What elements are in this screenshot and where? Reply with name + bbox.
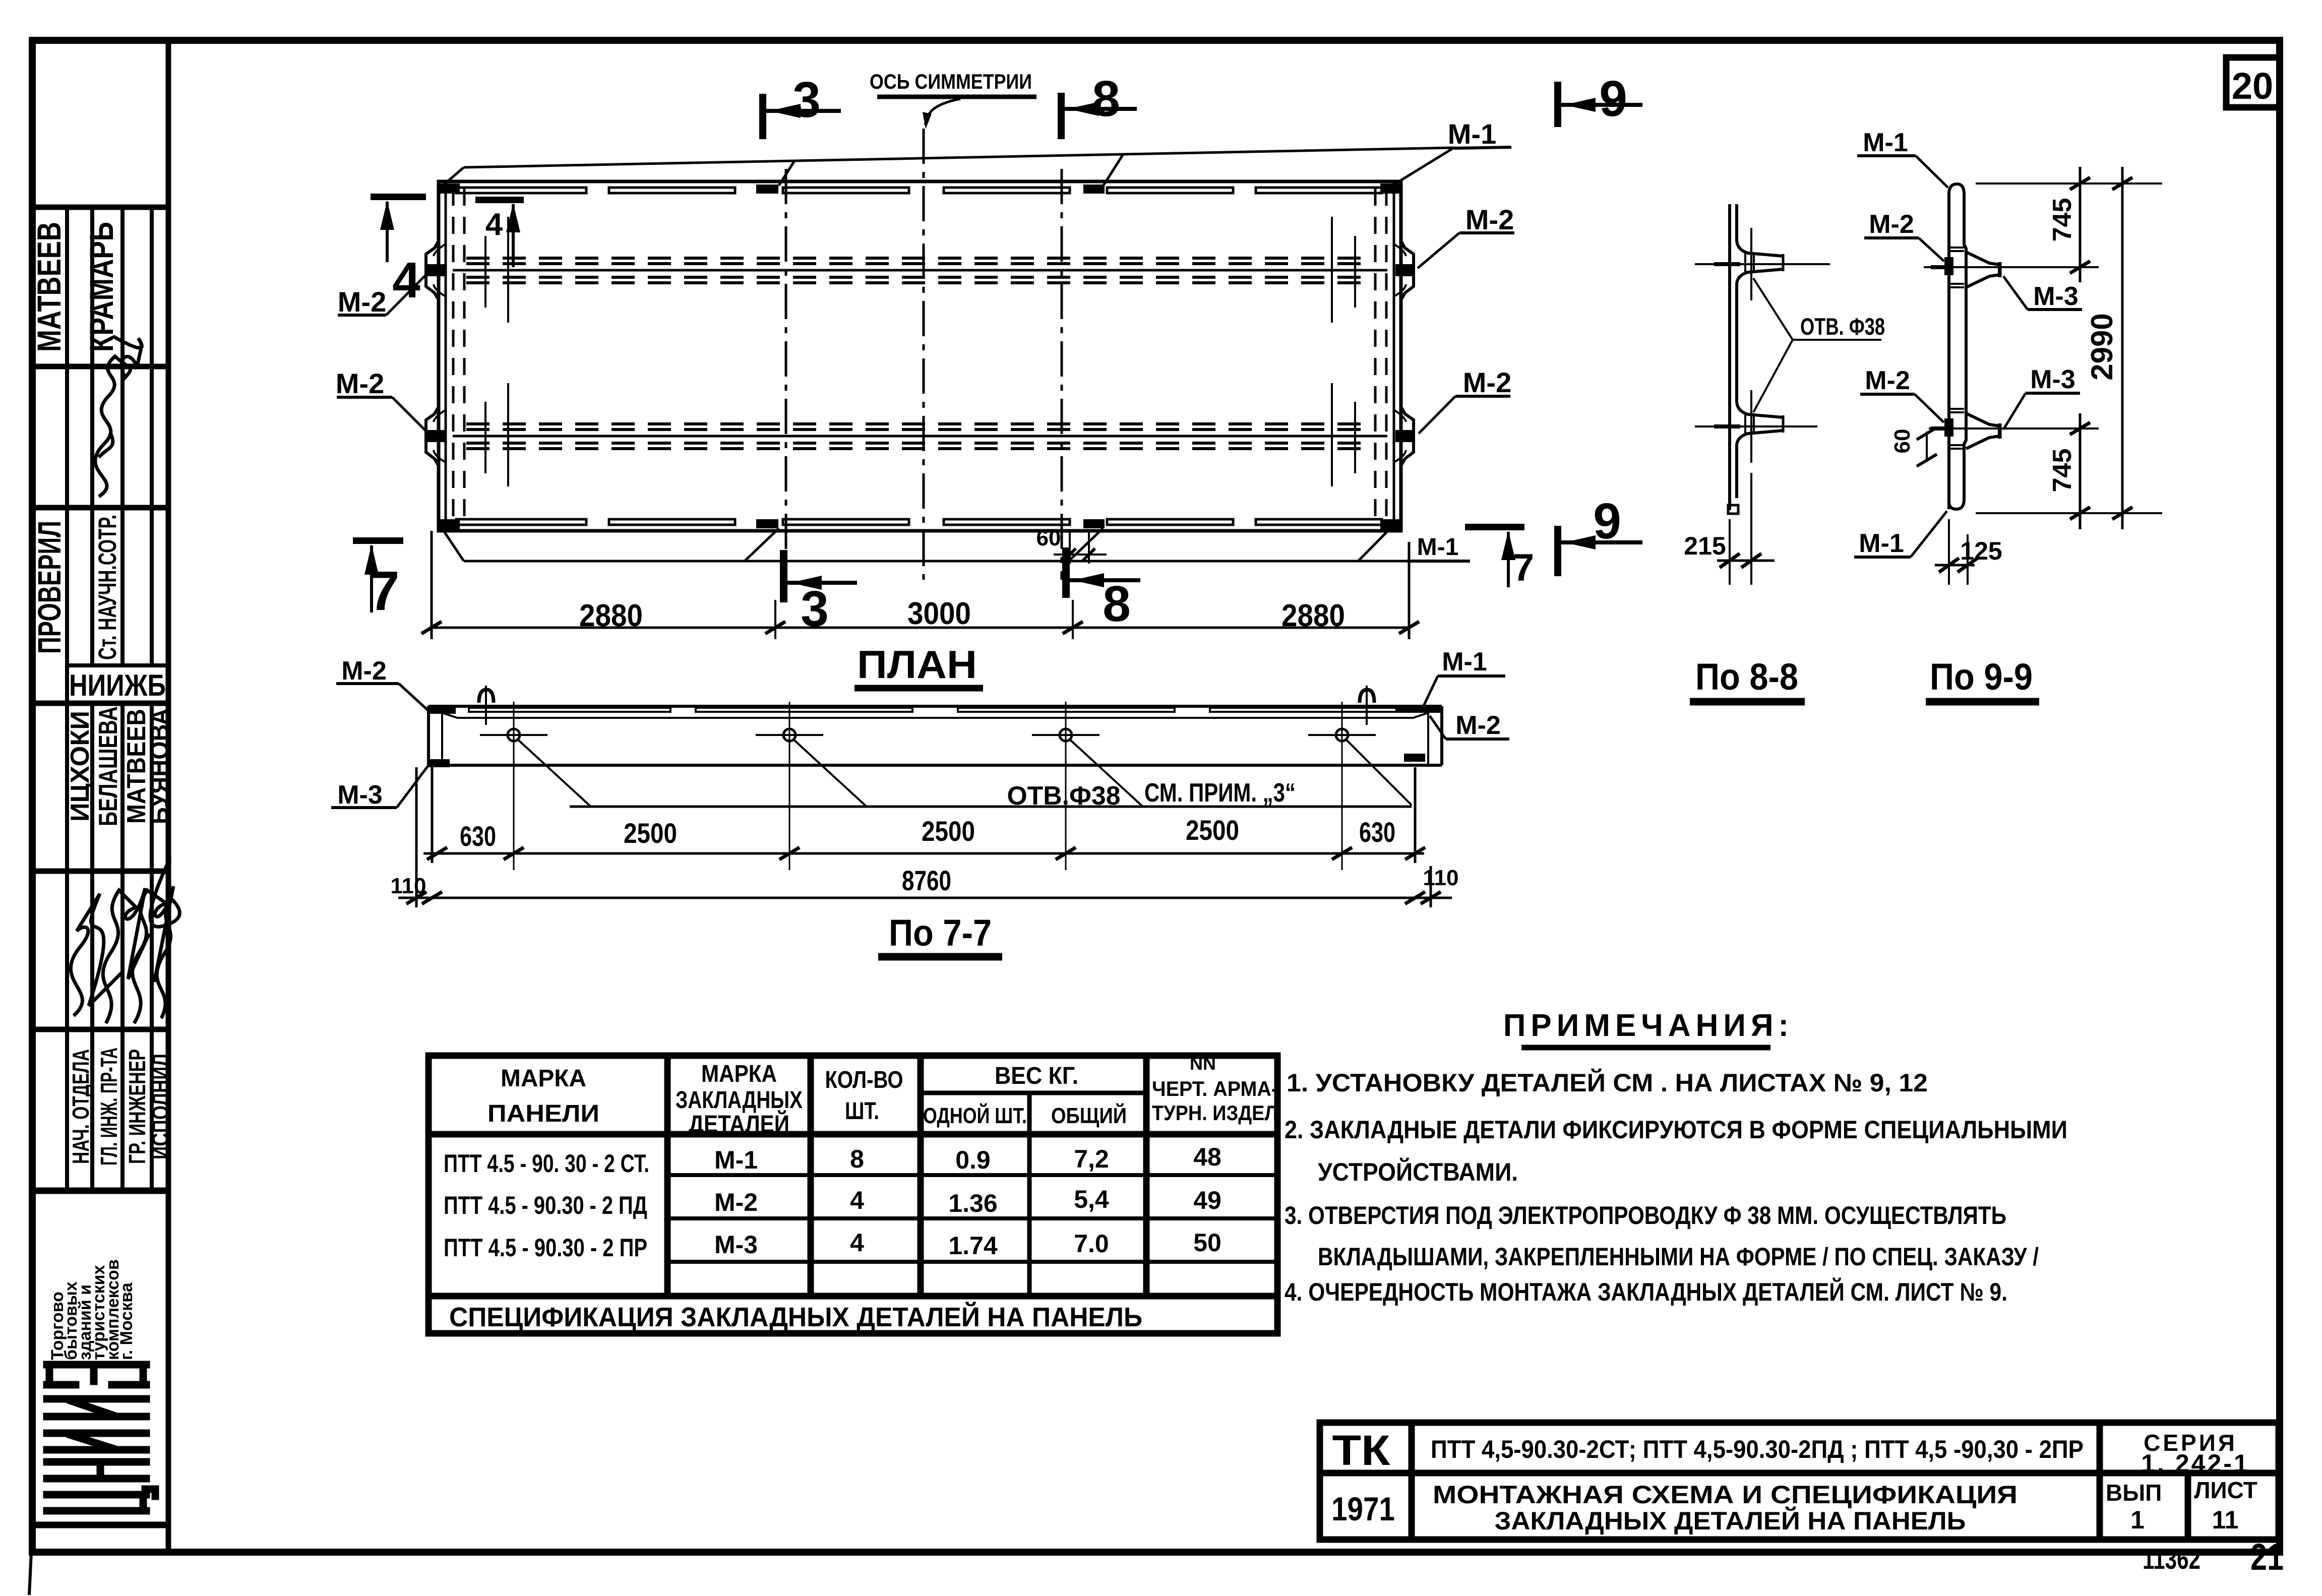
signature Крамарь — [95, 336, 142, 497]
По 7-7 title — [878, 912, 1002, 957]
svg-text:М-2: М-2 — [714, 1188, 758, 1216]
М-3 label По77 left — [331, 765, 429, 810]
svg-text:ПТТ 4.5 - 90.30 - 2 ПР: ПТТ 4.5 - 90.30 - 2 ПР — [444, 1234, 647, 1262]
svg-text:ПЛАН: ПЛАН — [857, 642, 977, 687]
svg-text:11: 11 — [2212, 1506, 2239, 1534]
svg-text:4: 4 — [392, 252, 420, 309]
М-1 label По99 top — [1857, 128, 1948, 188]
axis dash-dot lines — [786, 129, 1062, 580]
svg-text:ШТ.: ШТ. — [845, 1098, 879, 1125]
svg-text:7,2: 7,2 — [1074, 1145, 1109, 1173]
ОТВ Ф38 leader По88 — [1753, 278, 1881, 412]
М-2 blobs at rib ends — [427, 264, 1413, 442]
По 9-9 flare axes — [1924, 267, 2099, 428]
svg-text:М-1: М-1 — [1417, 534, 1459, 561]
rib 1 dashed band — [466, 258, 1374, 283]
svg-text:1971: 1971 — [1331, 1490, 1395, 1527]
svg-text:9: 9 — [1599, 71, 1627, 127]
По 8-8 funnel axes — [1695, 228, 1830, 463]
svg-text:ОСЬ СИММЕТРИИ: ОСЬ СИММЕТРИИ — [870, 70, 1032, 93]
М-2 label right lower — [1419, 366, 1511, 434]
svg-text:7: 7 — [1513, 546, 1534, 589]
svg-text:ВЕС КГ.: ВЕС КГ. — [995, 1063, 1078, 1089]
svg-text:М-3: М-3 — [337, 780, 383, 810]
М-3 label По99 lower — [2003, 365, 2080, 429]
svg-text:М-1: М-1 — [714, 1146, 758, 1174]
svg-text:М-1: М-1 — [1442, 647, 1487, 677]
svg-text:ЧЕРТ. АРМА-: ЧЕРТ. АРМА- — [1152, 1077, 1278, 1100]
svg-text:8: 8 — [1103, 576, 1131, 632]
svg-text:3: 3 — [792, 72, 821, 128]
svg-text:48: 48 — [1193, 1143, 1221, 1171]
signatures section E — [71, 858, 179, 1023]
svg-text:УСТРОЙСТВАМИ.: УСТРОЙСТВАМИ. — [1318, 1157, 1518, 1186]
По 7-7 dim texts row1 — [460, 814, 1395, 852]
ПЛАН title — [854, 642, 983, 688]
svg-text:М-2: М-2 — [1865, 366, 1910, 395]
section marker 3 bottom — [780, 550, 857, 637]
svg-text:По 8-8: По 8-8 — [1695, 656, 1798, 698]
stamp rotated names section D — [66, 706, 174, 826]
svg-text:125: 125 — [1960, 537, 2002, 565]
section marker 7 bottom right — [1465, 524, 1534, 589]
svg-text:110: 110 — [391, 874, 426, 898]
section marker 8 top — [1058, 71, 1137, 139]
М-2 label По99 lower — [1860, 366, 1944, 422]
svg-text:М-2: М-2 — [1455, 711, 1501, 740]
М-1 label top right — [1448, 118, 1511, 150]
По 7-7 element outline — [429, 706, 1442, 765]
По 7-7 top recess strips — [469, 708, 1401, 712]
svg-text:г. Москва: г. Москва — [117, 1282, 136, 1360]
svg-text:М-2: М-2 — [336, 367, 384, 399]
svg-text:ДЕТАЛЕЙ: ДЕТАЛЕЙ — [689, 1110, 789, 1138]
svg-text:ЛИСТ: ЛИСТ — [2194, 1477, 2257, 1503]
По 9-9 М-2 squares — [1944, 257, 1953, 437]
section marker 7 bottom left — [353, 537, 403, 622]
ЦНИИЭП logo bars — [47, 1365, 155, 1511]
svg-text:110: 110 — [1423, 866, 1459, 890]
По 7-7 black embedded marks — [427, 705, 1442, 767]
svg-text:7: 7 — [369, 560, 399, 622]
svg-text:5,4: 5,4 — [1074, 1185, 1109, 1213]
М-1 embedded squares on edges — [440, 183, 1399, 529]
svg-text:1: 1 — [2130, 1506, 2145, 1534]
svg-text:СМ. ПРИМ. „3“: СМ. ПРИМ. „3“ — [1144, 778, 1296, 808]
svg-text:М-2: М-2 — [1463, 366, 1511, 398]
svg-text:745: 745 — [2048, 449, 2077, 493]
М-2 label По77 left — [336, 656, 429, 711]
svg-text:М-3: М-3 — [2030, 365, 2075, 394]
page number box 20 — [2226, 57, 2280, 107]
М-1 top leader system — [442, 148, 1454, 187]
svg-text:ОДНОЙ ШТ.: ОДНОЙ ШТ. — [923, 1102, 1027, 1128]
section marker 9 top — [1554, 71, 1642, 127]
svg-text:М-2: М-2 — [338, 286, 386, 318]
svg-text:9: 9 — [1593, 493, 1621, 549]
svg-text:БЕЛАШЕВА: БЕЛАШЕВА — [94, 706, 123, 826]
По 7-7 holes — [480, 702, 1376, 870]
svg-text:ГЛ. ИНЖ. ПР-ТА: ГЛ. ИНЖ. ПР-ТА — [96, 1048, 122, 1165]
svg-text:50: 50 — [1193, 1229, 1221, 1257]
60 dim По99 — [1890, 427, 1937, 466]
svg-text:11362: 11362 — [2143, 1543, 2201, 1575]
section marker 8 bottom — [1062, 547, 1140, 632]
По 7-7 dim line 2 — [398, 767, 1452, 907]
svg-text:4. ОЧЕРЕДНОСТЬ МОНТАЖА ЗАКЛАД: 4. ОЧЕРЕДНОСТЬ МОНТАЖА ЗАКЛАДНЫХ ДЕТАЛЕЙ… — [1285, 1277, 2007, 1306]
svg-text:М-3: М-3 — [2033, 282, 2079, 311]
svg-text:КРАМАРЬ: КРАМАРЬ — [83, 222, 120, 352]
svg-text:КОЛ-ВО: КОЛ-ВО — [825, 1067, 903, 1093]
svg-text:ОТВ.Ф38: ОТВ.Ф38 — [1007, 781, 1121, 811]
plan dimension line — [421, 531, 1419, 639]
По 7-7 lifting loops — [479, 686, 1374, 725]
svg-text:МАРКА: МАРКА — [501, 1065, 586, 1092]
svg-text:2500: 2500 — [624, 817, 677, 849]
svg-text:ИЦХОКИ: ИЦХОКИ — [66, 711, 95, 822]
stamp rotated texts section A — [30, 222, 120, 352]
М-2 label По77 right — [1430, 711, 1509, 740]
svg-text:НАЧ. ОТДЕЛА: НАЧ. ОТДЕЛА — [68, 1049, 94, 1164]
title block texts — [1331, 1427, 2257, 1535]
svg-text:60: 60 — [1036, 526, 1061, 550]
left stamp column grid — [32, 40, 168, 1552]
svg-text:Ст. НАУЧН.СОТР.: Ст. НАУЧН.СОТР. — [93, 515, 121, 660]
svg-text:М-2: М-2 — [1465, 204, 1514, 235]
svg-text:745: 745 — [2048, 198, 2077, 242]
svg-text:ВЫП: ВЫП — [2106, 1480, 2162, 1506]
svg-text:3000: 3000 — [907, 596, 971, 631]
rib 2 dashed band — [466, 424, 1374, 449]
М-1 label По99 bottom — [1854, 511, 1947, 558]
svg-text:0.9: 0.9 — [955, 1146, 991, 1174]
plan top edge recess strips — [456, 188, 1382, 193]
svg-text:По 9-9: По 9-9 — [1930, 656, 2033, 698]
svg-text:2990: 2990 — [2085, 313, 2119, 380]
plan bottom edge recess strips — [456, 519, 1382, 525]
svg-text:8760: 8760 — [902, 865, 951, 896]
svg-text:ОТВ. Ф38: ОТВ. Ф38 — [1800, 313, 1885, 340]
svg-text:8: 8 — [1092, 71, 1120, 127]
М-2 label left lower — [336, 367, 427, 433]
svg-text:ПТТ 4.5 - 90.30 - 2 ПД: ПТТ 4.5 - 90.30 - 2 ПД — [444, 1191, 647, 1219]
stamp org text block rotated — [48, 1259, 136, 1360]
plan edge dashed joint lines — [453, 189, 1386, 524]
ОТВ Ф38 leader lines — [517, 739, 1412, 807]
notes heading — [1503, 1008, 1794, 1048]
svg-text:2500: 2500 — [1186, 814, 1239, 846]
rib 2 centerline — [453, 435, 1387, 438]
section marker 4 pair top left — [371, 194, 524, 309]
215 dimension — [1684, 473, 1775, 585]
svg-text:ПТТ 4.5 - 90. 30 - 2 СТ.: ПТТ 4.5 - 90. 30 - 2 СТ. — [444, 1149, 649, 1178]
svg-text:М-3: М-3 — [714, 1231, 758, 1259]
svg-text:2880: 2880 — [579, 598, 643, 633]
svg-text:60: 60 — [1890, 429, 1915, 454]
svg-text:630: 630 — [460, 820, 496, 852]
svg-text:ПТТ 4,5-90.30-2СТ; ПТТ 4,5-90.: ПТТ 4,5-90.30-2СТ; ПТТ 4,5-90.30-2ПД ; П… — [1431, 1435, 2084, 1463]
svg-text:ВКЛАДЫШАМИ, ЗАКРЕПЛЕННЫМИ НА: ВКЛАДЫШАМИ, ЗАКРЕПЛЕННЫМИ НА ФОРМЕ / ПО … — [1318, 1243, 2039, 1271]
svg-text:215: 215 — [1684, 532, 1726, 560]
svg-text:20: 20 — [2232, 65, 2273, 107]
svg-text:1. УСТАНОВКУ ДЕТАЛЕЙ СМ . НА Л: 1. УСТАНОВКУ ДЕТАЛЕЙ СМ . НА ЛИСТАХ № 9,… — [1287, 1068, 1928, 1097]
svg-text:ЗАКЛАДНЫХ ДЕТАЛЕЙ НА ПАНЕЛЬ: ЗАКЛАДНЫХ ДЕТАЛЕЙ НА ПАНЕЛЬ — [1495, 1506, 1966, 1535]
svg-text:НИИЖБ: НИИЖБ — [69, 668, 166, 702]
svg-text:1.74: 1.74 — [948, 1232, 998, 1260]
По 7-7 dim line 1 — [423, 767, 1425, 863]
stamp rotated titles section F — [68, 1048, 173, 1165]
По 9-9 profile — [1949, 184, 2000, 509]
М-1 label По77 right — [1424, 647, 1505, 706]
stamp rotated texts section C — [31, 515, 166, 702]
svg-text:ОБЩИЙ: ОБЩИЙ — [1051, 1102, 1127, 1128]
По 8-8 profile — [1728, 204, 1783, 514]
plan dimension texts — [579, 596, 1345, 633]
svg-text:4: 4 — [850, 1186, 864, 1214]
svg-text:3: 3 — [801, 581, 829, 637]
М-2 label left upper — [338, 273, 427, 318]
svg-text:По 7-7: По 7-7 — [889, 912, 992, 954]
М-2 label По99 upper — [1864, 210, 1944, 261]
По 9-9 dim 745 top / 2990 / 745 bottom — [1976, 167, 2162, 529]
М-3 label По99 upper — [2003, 276, 2082, 311]
rib end tick crosses — [456, 217, 1384, 486]
svg-text:ИСПОЛНИЛ: ИСПОЛНИЛ — [147, 1054, 173, 1159]
ось симметрии label — [870, 70, 1036, 129]
svg-text:8: 8 — [850, 1145, 864, 1173]
table header texts — [487, 1053, 1278, 1138]
svg-text:М-1: М-1 — [1448, 118, 1496, 150]
svg-text:СПЕЦИФИКАЦИЯ ЗАКЛАДНЫХ ДЕТАЛ: СПЕЦИФИКАЦИЯ ЗАКЛАДНЫХ ДЕТАЛЕЙ НА ПАНЕЛЬ — [449, 1302, 1142, 1332]
125 dim По99 — [1935, 519, 2002, 585]
svg-text:М-1: М-1 — [1863, 128, 1908, 157]
plan view panel outline — [439, 181, 1401, 531]
svg-text:МОНТАЖНАЯ СХЕМА И СПЕЦИФИКА: МОНТАЖНАЯ СХЕМА И СПЕЦИФИКАЦИЯ — [1433, 1481, 2018, 1509]
60 small dimension — [1036, 526, 1107, 564]
svg-text:2880: 2880 — [1281, 598, 1345, 633]
По 9-9 title — [1926, 656, 2039, 702]
svg-text:7.0: 7.0 — [1074, 1230, 1109, 1258]
svg-text:МАТВЕЕВ: МАТВЕЕВ — [30, 222, 68, 352]
М-2 label right upper — [1418, 204, 1514, 268]
svg-text:3. ОТВЕРСТИЯ ПОД ЭЛЕКТРОПРОВОД: 3. ОТВЕРСТИЯ ПОД ЭЛЕКТРОПРОВОДКУ Ф 38 ММ… — [1285, 1201, 2006, 1230]
svg-text:630: 630 — [1359, 816, 1395, 848]
rib 1 centerline — [453, 269, 1387, 272]
svg-text:NN: NN — [1190, 1053, 1216, 1074]
М-1 label bottom right — [1407, 534, 1470, 561]
svg-text:М-1: М-1 — [1859, 529, 1904, 558]
svg-text:ПРИМЕЧАНИЯ:: ПРИМЕЧАНИЯ: — [1503, 1008, 1794, 1043]
svg-text:ЗАКЛАДНЫХ: ЗАКЛАДНЫХ — [676, 1087, 803, 1114]
section marker 9 bottom — [1554, 493, 1642, 576]
М-1 bottom leader system — [443, 526, 1407, 561]
По 8-8 title — [1690, 656, 1805, 702]
svg-text:МАРКА: МАРКА — [701, 1061, 777, 1087]
svg-text:ПАНЕЛИ: ПАНЕЛИ — [487, 1100, 599, 1127]
svg-text:ТК: ТК — [1332, 1427, 1391, 1474]
title block grid — [1320, 1423, 2279, 1540]
section marker 3 top — [759, 72, 841, 139]
svg-text:ПРОВЕРИЛ: ПРОВЕРИЛ — [31, 521, 68, 654]
notes list — [1285, 1068, 2067, 1306]
rib edge flares left — [426, 241, 446, 466]
rib edge flares right — [1394, 241, 1414, 466]
svg-text:49: 49 — [1193, 1186, 1221, 1214]
specification table grid — [429, 1056, 1277, 1333]
svg-text:4: 4 — [485, 207, 503, 242]
svg-text:2500: 2500 — [922, 815, 975, 847]
svg-text:ГР. ИНЖЕНЕР: ГР. ИНЖЕНЕР — [124, 1049, 150, 1164]
svg-text:БУЯНОВА: БУЯНОВА — [145, 708, 174, 824]
svg-text:М-2: М-2 — [341, 656, 387, 686]
svg-text:2. ЗАКЛАДНЫЕ ДЕТАЛИ ФИКСИРУЮТС: 2. ЗАКЛАДНЫЕ ДЕТАЛИ ФИКСИРУЮТСЯ В ФОРМЕ … — [1285, 1116, 2067, 1144]
svg-text:4: 4 — [850, 1229, 864, 1257]
svg-text:1.36: 1.36 — [948, 1189, 997, 1217]
table data rows — [714, 1143, 1221, 1260]
svg-text:ТУРН. ИЗДЕЛ: ТУРН. ИЗДЕЛ — [1152, 1101, 1278, 1125]
svg-text:1. 242-1: 1. 242-1 — [2141, 1449, 2249, 1478]
svg-text:М-2: М-2 — [1869, 210, 1914, 239]
table col1 panel marks — [444, 1149, 649, 1262]
